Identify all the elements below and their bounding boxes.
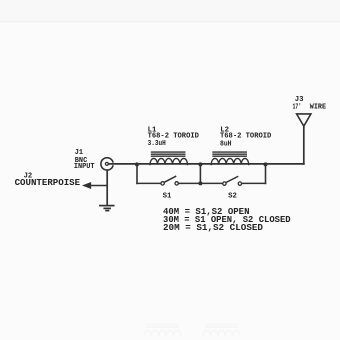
wire branch vertical right (265, 164, 267, 184)
svg-text:T68-2 TOROID: T68-2 TOROID (220, 132, 272, 140)
wire main horizontal (108, 163, 303, 165)
svg-text:3.3uH: 3.3uH (148, 140, 166, 148)
switch settings text (163, 207, 291, 233)
wire S2 bottom left segment (200, 182, 222, 184)
label L1 (148, 126, 200, 148)
inductor L1 (150, 152, 188, 165)
svg-text:S2: S2 (228, 192, 237, 200)
node junction dots (135, 162, 268, 185)
wire BNC down (106, 170, 108, 205)
label J3 (293, 96, 327, 111)
svg-text:INPUT: INPUT (74, 163, 95, 171)
label J1 (74, 149, 95, 171)
svg-text:S1: S1 (163, 192, 172, 200)
svg-text:WIRE: WIRE (310, 104, 327, 112)
wire antenna down (303, 126, 305, 164)
svg-text:20M = S1,S2 CLOSED: 20M = S1,S2 CLOSED (163, 223, 263, 233)
svg-text:COUNTERPOISE: COUNTERPOISE (15, 177, 81, 188)
node counterpoise arrow (83, 183, 91, 189)
ground (100, 206, 114, 211)
svg-text:J1: J1 (75, 149, 83, 157)
wire S2 to right node (242, 182, 266, 184)
label L2 (220, 126, 272, 148)
svg-text:8uH: 8uH (220, 140, 232, 148)
wire S1 to middle node (179, 182, 201, 184)
wire S1 bottom left segment (137, 182, 161, 184)
inductor L2 (211, 152, 249, 165)
switch S2 (223, 182, 226, 185)
wire branch vertical left (136, 164, 138, 184)
switch S1 (161, 182, 164, 185)
connector J1 (BNC) (101, 158, 113, 170)
wire branch vertical middle (199, 164, 201, 184)
svg-text:17': 17' (293, 104, 302, 112)
faint scan ghost of coils at bottom (144, 325, 240, 337)
wire counterpoise (90, 185, 108, 187)
antenna J3 (297, 114, 311, 126)
